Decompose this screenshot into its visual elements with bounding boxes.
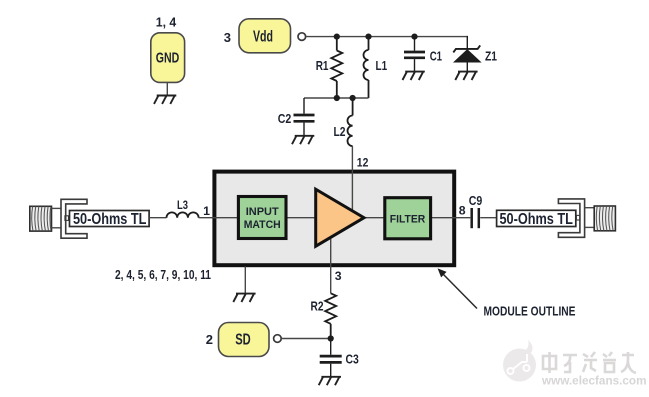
resistor R2 xyxy=(325,293,336,338)
node SD/R2/C3 xyxy=(328,335,334,341)
node R1 top xyxy=(334,34,340,40)
ground (C1) xyxy=(403,72,425,80)
svg-text:12: 12 xyxy=(357,156,369,170)
Vdd terminal circle xyxy=(298,33,306,41)
coax connector left center pin xyxy=(65,216,69,221)
op-amp amplifier triangle xyxy=(316,189,364,246)
watermark logo circle xyxy=(503,340,536,382)
coax connector right barrel xyxy=(594,206,615,231)
ground (module) xyxy=(233,294,255,302)
svg-text:2: 2 xyxy=(206,332,213,347)
ground (C3) xyxy=(319,377,341,385)
filter block xyxy=(385,198,431,239)
coax connector right center pin xyxy=(576,215,580,220)
inductor L3 xyxy=(167,212,199,217)
GND terminal box xyxy=(151,33,185,83)
wire pin 12 xyxy=(351,146,353,211)
wire input inside module xyxy=(212,217,238,219)
capacitor C3 xyxy=(320,339,342,377)
capacitor C9 xyxy=(472,208,479,228)
svg-text:SD: SD xyxy=(235,332,251,349)
svg-text:FILTER: FILTER xyxy=(390,213,426,225)
svg-text:R1: R1 xyxy=(316,59,329,73)
svg-text:1: 1 xyxy=(203,204,210,218)
transmission line right box xyxy=(497,210,576,226)
svg-text:L1: L1 xyxy=(376,59,388,73)
module outline box xyxy=(214,172,454,266)
svg-text:3: 3 xyxy=(335,269,342,283)
coax connector left neck xyxy=(51,208,61,227)
svg-text:MODULE OUTLINE: MODULE OUTLINE xyxy=(484,305,576,319)
capacitor C2 xyxy=(294,98,315,136)
svg-text:GND: GND xyxy=(156,50,180,67)
wire SD to node xyxy=(281,338,330,340)
svg-text:L3: L3 xyxy=(177,198,188,212)
node C1 top xyxy=(411,34,417,40)
node L1 top xyxy=(365,34,371,40)
node L2 top xyxy=(350,95,356,101)
svg-text:2, 4, 5, 6, 7, 9, 10, 11: 2, 4, 5, 6, 7, 9, 10, 11 xyxy=(115,268,211,282)
svg-text:R2: R2 xyxy=(311,300,324,314)
svg-text:INPUT: INPUT xyxy=(246,206,279,218)
module outline pointer arrow xyxy=(443,274,477,309)
wire Vdd rail xyxy=(306,36,468,38)
svg-text:50-Ohms TL: 50-Ohms TL xyxy=(73,211,147,228)
svg-text:50-Ohms TL: 50-Ohms TL xyxy=(499,211,573,228)
svg-text:1, 4: 1, 4 xyxy=(156,15,177,30)
svg-text:C9: C9 xyxy=(469,194,483,208)
capacitor C1 xyxy=(404,37,425,72)
svg-text:L2: L2 xyxy=(334,125,346,139)
transmission line left box xyxy=(70,211,150,227)
watermark chinese characters xyxy=(543,352,636,373)
svg-text:C3: C3 xyxy=(346,351,359,366)
svg-text:3: 3 xyxy=(224,30,231,45)
resistor R1 xyxy=(331,37,342,98)
svg-text:Vdd: Vdd xyxy=(253,29,273,46)
Vdd terminal box xyxy=(239,19,291,53)
ground (GND box) xyxy=(154,96,176,104)
wire module ground stem xyxy=(244,267,246,294)
SD terminal box xyxy=(219,323,270,357)
inductor L2 xyxy=(348,98,353,146)
SD terminal circle xyxy=(274,335,282,343)
wire GND to ground xyxy=(166,83,168,96)
svg-text:MATCH: MATCH xyxy=(244,219,281,231)
ground (Z1) xyxy=(455,72,477,80)
wire TL to L3 xyxy=(149,217,166,219)
wire pin 3 from amplifier xyxy=(330,232,332,293)
node R1 bottom xyxy=(334,95,340,101)
wire amp to filter xyxy=(364,217,384,219)
ground (C2) xyxy=(292,136,314,144)
inductor L1 xyxy=(364,37,369,98)
coax connector left barrel xyxy=(30,206,52,231)
coax connector right bracket xyxy=(558,199,584,237)
svg-text:Z1: Z1 xyxy=(485,48,497,63)
wire filter to pin 8 / C9 xyxy=(431,217,470,219)
coax connector right neck xyxy=(585,208,595,228)
svg-text:C2: C2 xyxy=(278,112,292,126)
svg-text:8: 8 xyxy=(459,204,466,218)
zener diode Z1 xyxy=(453,36,480,72)
input match block xyxy=(238,197,286,239)
svg-text:C1: C1 xyxy=(430,48,442,63)
svg-text:www.elecfans.com: www.elecfans.com xyxy=(541,374,646,388)
wire C9 to right TL xyxy=(480,217,496,219)
wire input match to amp xyxy=(287,217,315,219)
coax connector left bracket xyxy=(61,199,87,238)
wire L3 to module pin 1 xyxy=(199,217,238,219)
wire lower rail xyxy=(304,97,369,99)
